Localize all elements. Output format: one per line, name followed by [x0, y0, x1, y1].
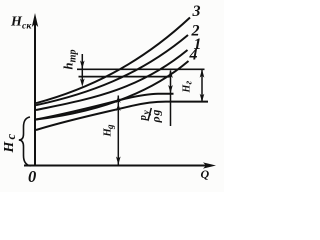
line L1	[77, 68, 205, 70]
curve 1	[36, 50, 188, 110]
label pg denominator (rotated)	[149, 110, 163, 124]
svg-text:0: 0	[28, 167, 36, 186]
svg-text:3: 3	[192, 3, 201, 20]
y-axis	[34, 18, 36, 166]
x-axis arrowhead	[203, 162, 216, 168]
x-axis	[24, 165, 212, 167]
H_d upper arrowhead (up)	[116, 95, 121, 103]
H_g up arrowhead	[200, 69, 205, 77]
svg-text:с: с	[4, 134, 18, 140]
p_y/pg up arrowhead (tip at L1)	[168, 70, 173, 78]
curve 2	[36, 35, 188, 105]
dimension H_g (right) vertical	[201, 69, 203, 102]
svg-text:тр: тр	[67, 50, 78, 63]
dimension h_tp vertical	[81, 54, 83, 84]
line L2	[79, 76, 171, 78]
curve 3	[36, 18, 190, 104]
H_d second up arrowhead	[116, 104, 121, 112]
svg-text:g: g	[105, 124, 115, 130]
svg-text:Q: Q	[201, 167, 210, 181]
svg-text:4: 4	[189, 47, 198, 64]
flattening line to p-dimension bar	[36, 94, 174, 120]
y-axis arrowhead	[32, 13, 38, 27]
curve 4	[36, 61, 189, 120]
H_g down arrowhead	[200, 94, 205, 102]
h_tp top arrowhead (down, tip at L1)	[80, 61, 85, 69]
svg-text:h: h	[62, 63, 76, 70]
H_d bottom down arrowhead at x-axis	[116, 157, 121, 165]
fraction bar	[148, 108, 151, 121]
h_tp bottom arrowhead (down, tip on curve 3)	[80, 79, 85, 87]
label h_tp (rotated)	[62, 50, 79, 70]
p_y/pg down arrowhead (tip at crossbar)	[168, 85, 173, 93]
label H_d (rotated)	[103, 124, 116, 138]
svg-text:ск: ск	[22, 21, 32, 32]
svg-text:ρ: ρ	[149, 116, 163, 123]
label Hck (y-axis)	[10, 15, 32, 32]
svg-text:g: g	[149, 110, 163, 117]
flattening line to lower level line	[36, 102, 208, 130]
label H_g (rotated)	[182, 81, 195, 94]
svg-text:г: г	[184, 81, 195, 85]
label H_c (rotated)	[2, 134, 18, 154]
svg-text:Н: Н	[2, 141, 17, 154]
brace H_c	[19, 117, 31, 166]
dimension H_d (middle) vertical	[117, 96, 119, 166]
svg-text:р: р	[137, 115, 149, 122]
dimension p_y/pg vertical	[170, 71, 172, 127]
label p_y numerator (rotated)	[137, 110, 152, 122]
